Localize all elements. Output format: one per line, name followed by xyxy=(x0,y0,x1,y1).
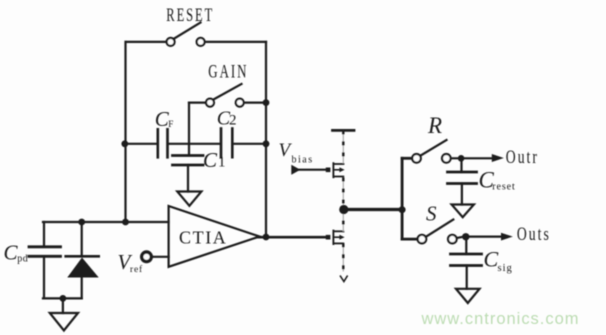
svg-text:C: C xyxy=(203,148,218,172)
svg-text:GAIN: GAIN xyxy=(208,61,248,82)
svg-text:RESET: RESET xyxy=(166,6,214,26)
svg-text:S: S xyxy=(426,202,437,226)
svg-text:R: R xyxy=(427,113,442,138)
svg-text:F: F xyxy=(168,119,173,129)
svg-text:CTIA: CTIA xyxy=(179,228,227,248)
svg-text:C: C xyxy=(4,241,19,265)
svg-text:www.cntronics.com: www.cntronics.com xyxy=(421,310,579,328)
svg-text:sig: sig xyxy=(498,263,513,274)
svg-text:pd: pd xyxy=(17,254,28,265)
svg-text:1: 1 xyxy=(218,155,226,171)
svg-text:Outr: Outr xyxy=(506,146,539,168)
svg-text:ref: ref xyxy=(130,264,143,275)
svg-text:bias: bias xyxy=(292,155,314,166)
svg-text:Outs: Outs xyxy=(517,223,551,245)
svg-text:reset: reset xyxy=(492,182,515,193)
svg-text:2: 2 xyxy=(229,113,237,129)
svg-text:C: C xyxy=(484,247,499,272)
